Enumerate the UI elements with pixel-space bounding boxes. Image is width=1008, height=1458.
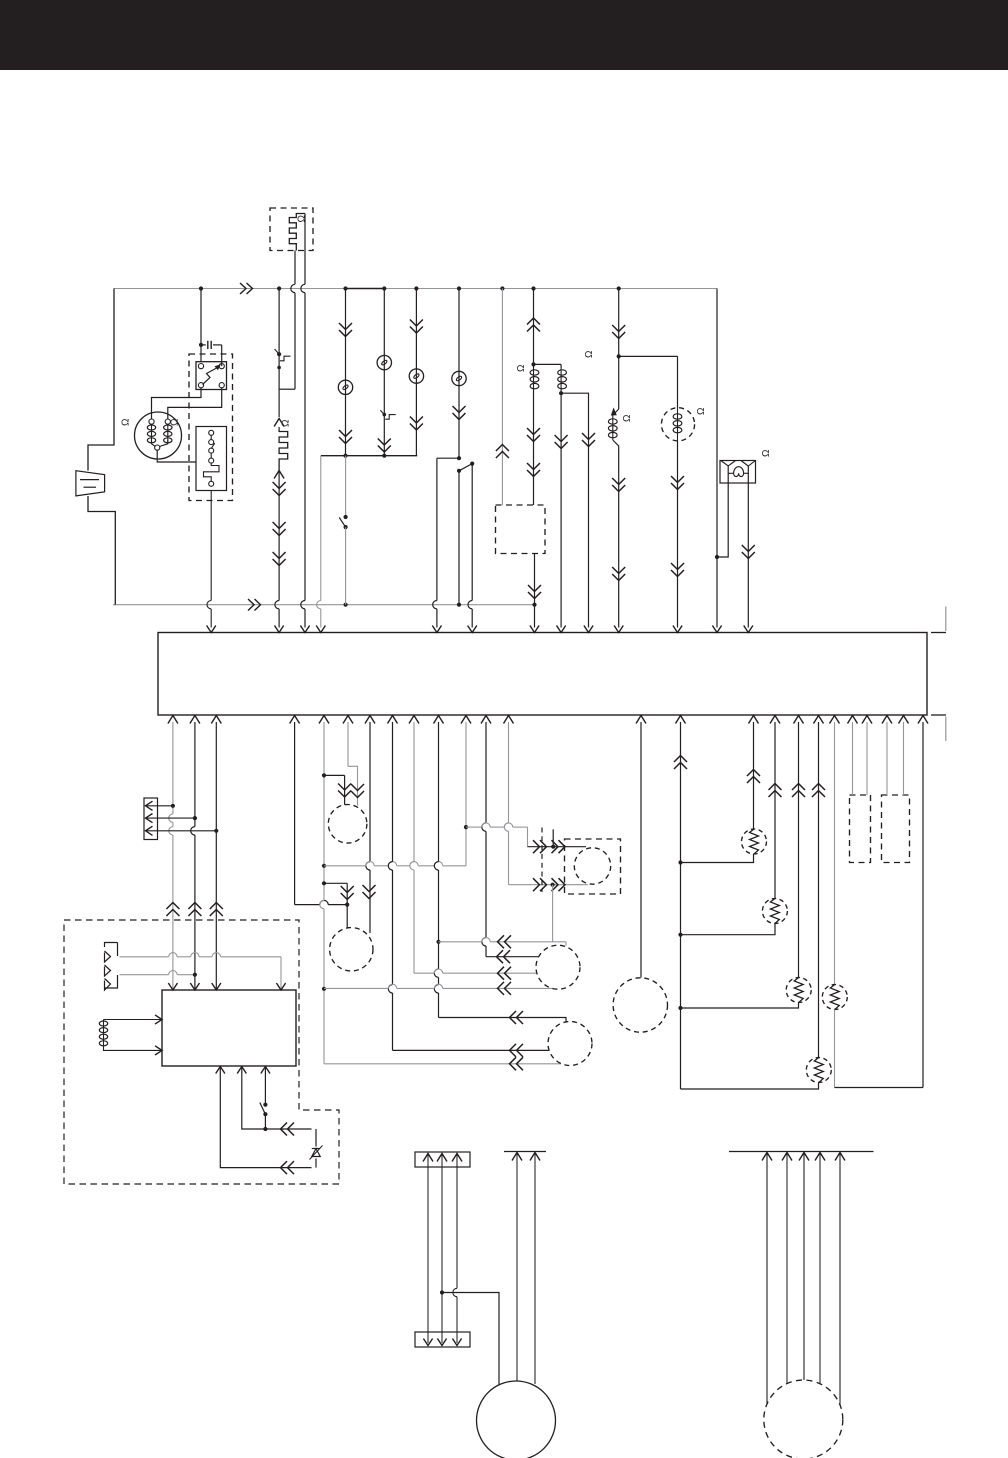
aux motor M5 dashed bbox=[548, 1022, 592, 1066]
solenoid Y1 arrow bbox=[611, 408, 617, 416]
R3 to rail bbox=[681, 1003, 799, 1009]
strip exit arrow x887 bbox=[882, 716, 892, 724]
strip exit arrow x903.5 bbox=[899, 716, 909, 724]
spare connector box B bbox=[882, 795, 910, 863]
strip entry arrow x748.3 bbox=[744, 626, 753, 633]
node on top bus x533.5 bbox=[531, 286, 535, 290]
J1 wire 3 bbox=[456, 1155, 458, 1288]
node on bottom bus x534.5 bbox=[532, 603, 536, 607]
strip exit arrow x923 bbox=[918, 716, 928, 724]
strip exit arrow x818.5 bbox=[814, 716, 824, 724]
wire 370 drop bbox=[369, 722, 371, 862]
strip exit arrow x370 bbox=[365, 716, 375, 724]
strip exit arrow x466 bbox=[461, 716, 471, 724]
strip entry arrow x618.7 bbox=[614, 626, 623, 633]
strip exit arrow x486 bbox=[481, 716, 491, 724]
module feed chevrons up bbox=[496, 445, 509, 459]
strip exit arrow x798.5 bbox=[794, 716, 804, 724]
strip entry arrow x320.8 bbox=[316, 626, 325, 633]
relay module dashed box bbox=[189, 354, 233, 501]
wire 392 drop bbox=[392, 722, 394, 862]
strip exit arrow x508.5 bbox=[504, 716, 514, 724]
grinder feed top bbox=[528, 846, 587, 848]
resistor R-279 element bbox=[279, 430, 288, 471]
wire relay to coil right bbox=[168, 364, 222, 420]
svg-text:Ω: Ω bbox=[281, 419, 292, 427]
flow arrow up b bbox=[274, 471, 284, 479]
strip exit arrow x852.5 bbox=[848, 716, 858, 724]
R5 lower leg bbox=[834, 1010, 836, 1088]
capacitor C1 tap bbox=[199, 343, 203, 347]
svg-text:Ω: Ω bbox=[696, 407, 707, 415]
wire4 to M1 bbox=[324, 987, 388, 989]
strip entry arrow x561.1 bbox=[557, 626, 566, 633]
strip entry arrow x279.1 bbox=[275, 626, 284, 633]
control unit A1 box bbox=[162, 990, 296, 1066]
wire relay to coil left bbox=[152, 388, 202, 419]
buzzer horn bbox=[76, 471, 105, 496]
reed switch blade bbox=[260, 1103, 266, 1115]
sensor wire A bbox=[120, 956, 169, 958]
interlock wiring bbox=[210, 435, 212, 439]
resistor R-top element bbox=[289, 214, 305, 251]
strip continuation bottom bbox=[931, 714, 946, 716]
resistor R4 dashed bbox=[806, 1058, 831, 1083]
motor feed wires bbox=[516, 1154, 518, 1382]
strip entry arrow x588.5 bbox=[584, 626, 593, 633]
relay K1 actuator arrow bbox=[203, 368, 218, 385]
grinder stub down bbox=[552, 885, 554, 942]
node on top bus x201 bbox=[199, 286, 203, 290]
long rail 866 bbox=[324, 865, 366, 867]
coil branch node bbox=[531, 362, 535, 366]
wire 775 drop bbox=[774, 722, 776, 899]
wire 414 drop bbox=[413, 722, 415, 862]
node on top bus x384.3 bbox=[382, 286, 386, 290]
J1 upper pins bbox=[423, 1154, 433, 1162]
pressure switch lower wire bbox=[345, 527, 347, 605]
strip entry arrow x717 bbox=[712, 626, 721, 633]
node on top bus x279.1 bbox=[277, 286, 281, 290]
valve Y2 dashed circle bbox=[661, 408, 694, 441]
svg-text:Ω: Ω bbox=[516, 364, 527, 372]
rail line 680 bbox=[680, 722, 682, 1089]
lamp H1 bbox=[338, 380, 352, 394]
flow arrow up a bbox=[274, 419, 284, 427]
wire 294 drop bbox=[294, 722, 296, 905]
wire Y1 to strip bbox=[613, 440, 619, 628]
lamp return rail bbox=[321, 455, 418, 457]
grinder motor dashed circle bbox=[574, 848, 610, 884]
pump motor M circle bbox=[135, 412, 182, 459]
top bus chevrons bbox=[240, 283, 253, 294]
lamp H2 wire bbox=[383, 289, 385, 456]
lamp H3 chevrons bbox=[410, 320, 423, 334]
strip exit arrow x641 bbox=[636, 716, 646, 724]
wire 486 drop bbox=[485, 722, 487, 823]
resistor R-top dashed box bbox=[270, 208, 313, 251]
J1 wire 1 bbox=[427, 1155, 429, 1343]
right feed wire 5 bbox=[839, 1154, 841, 1405]
buzzer plates bbox=[80, 479, 99, 481]
wire to M5 bottom bbox=[324, 1063, 561, 1065]
J1 lower pins bbox=[423, 1339, 432, 1346]
wire 818 drop bbox=[818, 722, 820, 1058]
wire interlock to terminal strip bbox=[210, 491, 212, 601]
node on top bus x618.7 bbox=[617, 286, 621, 290]
capacitor C1 bbox=[201, 344, 206, 346]
header bar bbox=[0, 0, 1008, 70]
wire pump to interlock bbox=[157, 450, 196, 462]
selector pivot bbox=[457, 469, 461, 473]
door conn pin2 bbox=[146, 814, 153, 823]
coil L1 wire top bbox=[533, 289, 535, 369]
J1 wire 2 bbox=[441, 1155, 443, 1343]
fan feed link bbox=[324, 774, 345, 776]
strip exit arrow x392.5 bbox=[388, 716, 398, 724]
selector wire a bbox=[436, 458, 438, 600]
coil L2 node bbox=[559, 391, 563, 395]
resistor R2 dashed bbox=[762, 899, 787, 924]
pump terminal b bbox=[165, 419, 170, 424]
ctrl out wire b bbox=[237, 1067, 246, 1074]
lower rung bbox=[835, 1087, 924, 1089]
valve Y2 feed bbox=[677, 356, 679, 408]
interlock step jog bbox=[204, 463, 220, 481]
wire 923 drop bbox=[922, 722, 924, 1088]
wire L2b jog bbox=[561, 393, 588, 627]
strip continuation top bbox=[931, 632, 946, 634]
wire 466 drop bbox=[465, 722, 467, 866]
strip entry arrow x436.9 bbox=[432, 626, 441, 633]
node on top bus x345.5 bbox=[343, 286, 347, 290]
resistor R5 dashed bbox=[822, 985, 847, 1010]
wire strip to ctrl c bbox=[215, 722, 217, 990]
heater E1 lead left bbox=[717, 466, 728, 557]
wire Y2 to strip bbox=[677, 441, 679, 628]
pump winding 2 bbox=[164, 425, 172, 430]
wire 508 drop bbox=[508, 722, 510, 823]
lamp H4 bbox=[452, 371, 466, 385]
module X1 dashed box bbox=[496, 505, 546, 554]
sensor wire bottom bbox=[104, 1048, 163, 1051]
node on bottom bus x345.6 bbox=[344, 603, 348, 607]
sensor wire top bbox=[104, 1019, 163, 1021]
lamp H3 bbox=[409, 369, 423, 383]
strip exit arrow x172.9 bbox=[168, 716, 178, 724]
mains lead return bbox=[88, 496, 115, 605]
strip exit arrow x680.5 bbox=[676, 716, 686, 724]
top supply bus L bbox=[114, 288, 717, 290]
module feed gray bbox=[501, 289, 503, 506]
lamp H1 wire bbox=[345, 289, 347, 456]
right feed wire 4 bbox=[819, 1154, 821, 1384]
lamp rail nodes bbox=[343, 454, 347, 458]
wire 641 drop bbox=[640, 722, 642, 978]
pump terminal c bbox=[155, 445, 160, 450]
strip exit arrow x834.5 bbox=[830, 716, 840, 724]
strip exit arrow x216.3 bbox=[211, 716, 221, 724]
interlock block bbox=[196, 427, 227, 491]
motor feed bar bbox=[504, 1151, 546, 1153]
svg-text:Ω: Ω bbox=[297, 215, 308, 223]
lamp H2 bbox=[377, 355, 391, 369]
terminal strip X2 bbox=[158, 633, 927, 716]
pump winding joins bbox=[152, 440, 168, 446]
chevrons line279 bbox=[273, 482, 286, 496]
pump terminal a bbox=[149, 419, 154, 424]
relay K1 terminals bbox=[198, 364, 203, 369]
strip entry arrow x534.5 bbox=[530, 626, 539, 633]
strip entry arrow x211.2 bbox=[207, 626, 216, 633]
pressure switch blade bbox=[339, 517, 345, 527]
grinder dashed box bbox=[565, 839, 621, 894]
strip exit arrow x324 bbox=[319, 716, 329, 724]
wire 834 drop bbox=[834, 722, 836, 985]
mains lead left bbox=[88, 289, 114, 471]
wire 438 drop bbox=[438, 722, 440, 862]
sensor wire B bbox=[120, 974, 169, 976]
wire 798 drop bbox=[798, 722, 800, 978]
resistor R3 dashed bbox=[786, 978, 811, 1003]
valve Y2 coil bbox=[673, 414, 682, 419]
solenoid branch node bbox=[617, 354, 621, 358]
wire bus to relay bbox=[200, 289, 202, 362]
R-top left leg bracket bbox=[279, 388, 295, 390]
bottom bus chevrons bbox=[248, 599, 261, 611]
wire L2a to strip bbox=[560, 393, 562, 627]
wire R-top left leg bbox=[294, 251, 296, 285]
lamp H4 wire bbox=[458, 289, 460, 459]
lamp H4 chevrons bbox=[453, 406, 466, 420]
strip exit arrow x753.5 bbox=[749, 716, 759, 724]
solenoid Y1 coil bbox=[608, 419, 617, 424]
wire strip to ctrl b bbox=[194, 722, 196, 827]
tap to grinder motor bbox=[440, 1290, 444, 1294]
interlock contacts bbox=[209, 430, 214, 435]
rail nodes bbox=[678, 860, 682, 864]
module output wire bbox=[534, 554, 536, 628]
bottom bus N bbox=[113, 604, 535, 606]
wire resistor to strip bbox=[278, 471, 280, 601]
lamp H2 thermal contact bbox=[383, 413, 387, 417]
wire thermostat to resistor bbox=[278, 354, 280, 417]
node on top bus x416.4 bbox=[414, 286, 418, 290]
wire to M5 top bbox=[439, 1018, 567, 1022]
strip exit arrow x194.9 bbox=[190, 716, 200, 724]
strip exit arrow x414 bbox=[409, 716, 419, 724]
ctrl out wire a bbox=[216, 1067, 225, 1074]
strip exit arrow x348 bbox=[343, 716, 353, 724]
strip entry arrow x472.2 bbox=[468, 626, 477, 633]
strip exit arrow x867 bbox=[862, 716, 872, 724]
selector wire b bbox=[471, 465, 473, 601]
heater E1 box bbox=[720, 461, 756, 484]
wire R-top right leg bbox=[304, 214, 306, 285]
right feed pin 4 bbox=[815, 1153, 825, 1161]
wire bus right leg bbox=[716, 289, 718, 628]
grinder motor M7 bbox=[477, 1381, 556, 1458]
spare wires A bbox=[852, 722, 854, 795]
brew motor M4 dashed bbox=[536, 945, 580, 989]
heater E1 element bbox=[728, 472, 733, 474]
strip exit arrow x438.5 bbox=[434, 716, 444, 724]
svg-text:Ω: Ω bbox=[584, 350, 595, 358]
lamp H2 chevrons bbox=[378, 439, 391, 453]
temp sensor coil bbox=[99, 1021, 107, 1026]
coil L1 chevron up bbox=[527, 318, 540, 332]
mill motor M3 dashed bbox=[330, 928, 373, 971]
motor feed pins bbox=[512, 1153, 522, 1161]
selector feed link bbox=[437, 457, 459, 459]
R4 to rail bbox=[681, 1083, 819, 1090]
heater E1 lead right bbox=[747, 466, 749, 628]
solenoid Y1 wire bbox=[618, 289, 620, 410]
node on top bus x502.4 bbox=[500, 286, 504, 290]
wire 324 drop bbox=[323, 722, 325, 900]
separator dashed line bbox=[541, 828, 543, 893]
sensor clip pair bbox=[105, 943, 118, 991]
pump winding 1 bbox=[147, 425, 155, 430]
right feed pin 3 bbox=[799, 1153, 809, 1161]
connector J1 lower bbox=[415, 1332, 470, 1347]
drive motor M6 dashed bbox=[613, 978, 667, 1032]
R1 to rail bbox=[681, 854, 754, 863]
R2 to rail bbox=[681, 924, 776, 935]
svg-text:Ω: Ω bbox=[761, 449, 772, 457]
heater E1 clips bbox=[721, 461, 736, 467]
wire strip to ctrl a bbox=[172, 722, 174, 814]
right feed pin 5 bbox=[835, 1153, 845, 1161]
wire L1 to module bbox=[533, 391, 535, 506]
wire2 to M1 top bbox=[439, 941, 482, 943]
coil L2 bbox=[560, 364, 562, 368]
wire 348 drop bbox=[348, 722, 358, 806]
mill feed link bbox=[324, 882, 347, 884]
svg-text:Ω: Ω bbox=[170, 418, 181, 426]
door conn pin3 bbox=[146, 826, 153, 835]
door conn pin1 bbox=[146, 801, 153, 810]
spare connector box A bbox=[850, 795, 871, 863]
wire to M5 mid bbox=[393, 1049, 550, 1051]
right feed wire 3 bbox=[803, 1154, 805, 1380]
grinder feed bottom bbox=[509, 884, 589, 886]
strip entry arrow x305 bbox=[300, 626, 309, 633]
right feed wire 1 bbox=[766, 1154, 768, 1405]
selector blade bbox=[459, 464, 472, 471]
strip exit arrow x294.6 bbox=[290, 716, 300, 724]
main motor M8 dashed bbox=[764, 1380, 843, 1458]
rail 827 bbox=[466, 826, 482, 828]
node on top bus x459 bbox=[457, 286, 461, 290]
right feed pin 1 bbox=[762, 1153, 772, 1161]
ctrl out wire c bbox=[261, 1067, 270, 1074]
wire3 to M1 bbox=[414, 972, 434, 974]
coil L1 bbox=[530, 370, 539, 375]
resistor R1 dashed bbox=[742, 829, 767, 854]
grinder stub bbox=[552, 829, 554, 846]
relay K1 box bbox=[196, 362, 227, 390]
right feed bar bbox=[729, 1151, 874, 1153]
wire 324 nodes bbox=[322, 773, 326, 777]
lamp rail drop bbox=[320, 456, 322, 601]
thermostat contact bbox=[277, 352, 281, 356]
diode D1 bbox=[315, 1129, 317, 1168]
lamp H1 chevrons bbox=[339, 323, 352, 337]
svg-text:Ω: Ω bbox=[121, 418, 132, 426]
wire 753 drop bbox=[753, 722, 755, 829]
connector J1 upper bbox=[415, 1152, 470, 1167]
right feed pin 2 bbox=[782, 1153, 792, 1161]
wire1 to M1 bbox=[485, 956, 487, 958]
control enclosure dashed bbox=[64, 920, 339, 1184]
right feed wire 2 bbox=[786, 1154, 788, 1384]
svg-text:Ω: Ω bbox=[622, 414, 633, 422]
strip exit arrow x775 bbox=[770, 716, 780, 724]
fan motor M2 dashed bbox=[328, 805, 367, 844]
node on bottom bus x459 bbox=[457, 603, 461, 607]
wire bus to thermostat bbox=[278, 289, 280, 355]
lamp H3 wire bbox=[415, 289, 417, 456]
pressure switch wire bbox=[345, 456, 347, 517]
door connector bbox=[144, 798, 158, 840]
spare wires B bbox=[886, 722, 888, 795]
strip entry arrow x677.5 bbox=[673, 626, 682, 633]
top bus black segment bbox=[346, 288, 386, 290]
